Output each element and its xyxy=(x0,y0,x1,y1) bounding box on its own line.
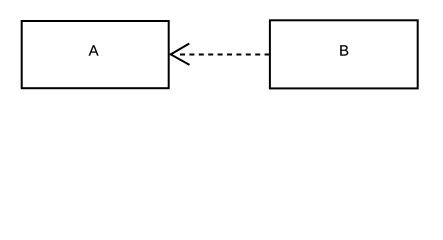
label A xyxy=(89,45,99,55)
box A xyxy=(22,21,169,88)
box B xyxy=(270,20,418,88)
open arrowhead pointing at A xyxy=(171,44,190,65)
dashed dependency line from B to A xyxy=(180,54,269,56)
label B xyxy=(340,45,348,55)
